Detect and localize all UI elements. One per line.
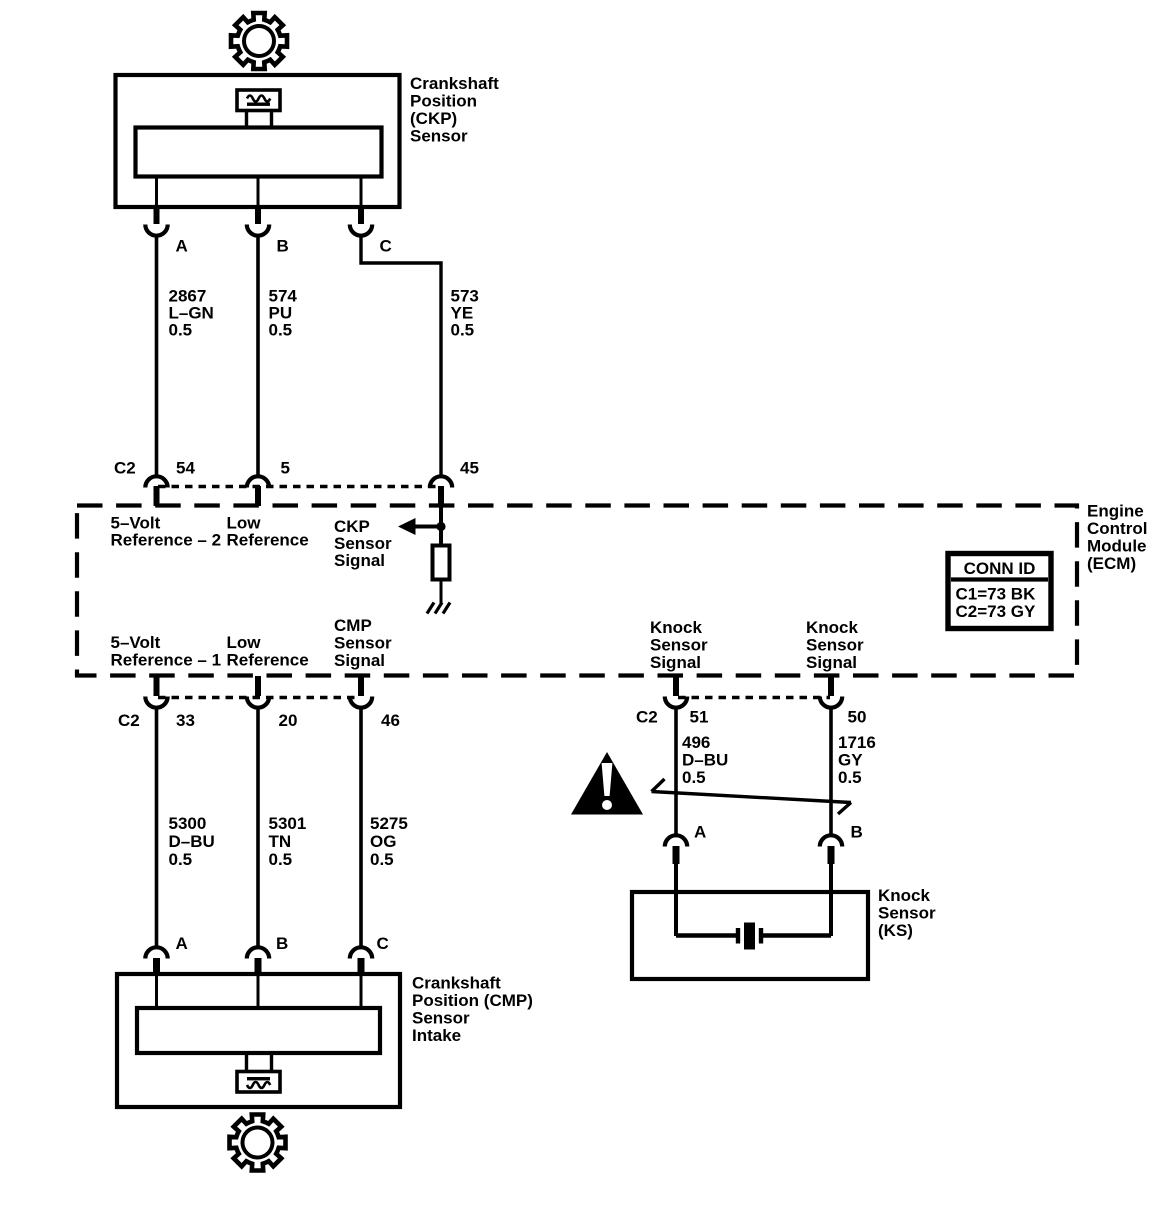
wire resistor to ground	[440, 580, 443, 605]
connector row C2 dashed line (top)	[158, 485, 440, 489]
CKP internal lead C	[360, 177, 363, 207]
wire label 574 PU 0.5	[269, 287, 298, 340]
svg-text:54: 54	[176, 459, 195, 478]
svg-text:B: B	[276, 934, 288, 953]
svg-text:Reference – 1: Reference – 1	[111, 651, 222, 670]
svg-text:C: C	[380, 237, 392, 256]
gear icon (reluctor wheel) above CKP sensor	[231, 13, 287, 69]
pin number 51	[690, 708, 709, 727]
CKP internal lead B	[257, 177, 260, 207]
svg-text:C: C	[377, 934, 389, 953]
svg-text:Signal: Signal	[806, 653, 857, 672]
svg-text:0.5: 0.5	[682, 768, 706, 787]
svg-text:Low: Low	[227, 633, 262, 652]
note pointer line across knock wires	[652, 779, 852, 814]
CKP terminal C	[350, 206, 372, 236]
connector row C2 dashed line (CMP)	[158, 696, 360, 700]
svg-text:C2: C2	[636, 708, 658, 727]
pin number 46	[381, 711, 400, 730]
svg-text:(CKP): (CKP)	[410, 109, 457, 128]
pin label A	[176, 237, 188, 256]
svg-text:Engine: Engine	[1087, 502, 1144, 521]
wire 5300 D-BU from ECM 33 to CMP A	[155, 709, 159, 948]
ECM pin 20 terminal	[247, 676, 269, 708]
svg-text:D–BU: D–BU	[682, 751, 728, 770]
CKP internal lead A	[155, 177, 158, 207]
pin number 45	[460, 459, 479, 478]
svg-text:20: 20	[279, 711, 298, 730]
wire 5301 TN from ECM 20 to CMP B	[256, 709, 260, 948]
CKP terminal A	[145, 206, 167, 236]
svg-text:Knock: Knock	[878, 886, 931, 905]
CKP sensor internal connector symbol	[237, 90, 280, 129]
wire label 1716 GY 0.5	[838, 733, 876, 787]
svg-text:Signal: Signal	[334, 651, 385, 670]
CMP sensor element box	[137, 1008, 380, 1053]
warning note triangle	[571, 752, 643, 815]
CMP internal lead B	[257, 976, 260, 1008]
label CKP Sensor Signal	[334, 517, 392, 570]
svg-text:A: A	[176, 934, 188, 953]
ECM pin 46 terminal	[350, 676, 372, 708]
CMP terminal C	[350, 947, 372, 976]
wire label 5300 D-BU 0.5	[169, 814, 215, 869]
ECM pin 54 terminal	[145, 476, 167, 506]
svg-text:Knock: Knock	[650, 618, 703, 637]
Engine Control Module (ECM) dashed box	[77, 506, 1077, 676]
svg-text:Knock: Knock	[806, 618, 859, 637]
label 5-Volt Reference - 1	[111, 633, 222, 670]
pin number 20	[279, 711, 298, 730]
CMP internal lead A	[155, 976, 158, 1008]
svg-text:TN: TN	[269, 832, 292, 851]
CKP sensor box	[116, 75, 400, 207]
ECM pin 51 terminal	[665, 676, 687, 708]
svg-text:51: 51	[690, 708, 709, 727]
ECM pin 5 terminal	[247, 476, 269, 506]
svg-text:5301: 5301	[269, 814, 307, 833]
svg-text:0.5: 0.5	[169, 321, 193, 340]
piezo element	[738, 923, 761, 950]
label CMP Sensor Signal	[334, 616, 392, 670]
CKP terminal B	[247, 206, 269, 236]
CMP pin label C	[377, 934, 389, 953]
svg-text:B: B	[851, 823, 863, 842]
CMP sensor box	[117, 974, 400, 1107]
pin number 33	[176, 711, 195, 730]
pin number 50	[848, 708, 867, 727]
KS lead B into box	[829, 864, 833, 936]
ground symbol	[427, 603, 450, 614]
svg-text:Sensor: Sensor	[806, 636, 864, 655]
ECM pin 45 terminal	[430, 476, 452, 506]
svg-text:Crankshaft: Crankshaft	[410, 74, 499, 93]
KS terminal B	[820, 835, 842, 864]
wire label 2867 L-GN 0.5	[169, 287, 214, 340]
svg-text:B: B	[277, 237, 289, 256]
CKP signal arrow	[398, 518, 441, 535]
CMP pin label A	[176, 934, 188, 953]
svg-text:Module: Module	[1087, 537, 1147, 556]
wire 1716 GY from ECM 50 to KS B	[829, 709, 833, 836]
KS internal wire right	[763, 933, 831, 937]
svg-text:50: 50	[848, 708, 867, 727]
wire 573 YE from CKP C to ECM 45	[361, 237, 441, 477]
CONN ID table	[948, 554, 1051, 629]
svg-text:Signal: Signal	[650, 653, 701, 672]
label Engine Control Module (ECM)	[1087, 502, 1147, 574]
svg-text:0.5: 0.5	[269, 321, 293, 340]
CMP internal connector symbol	[237, 1053, 280, 1092]
Knock Sensor (KS) box	[632, 892, 868, 979]
svg-text:(KS): (KS)	[878, 921, 913, 940]
pin number 5	[281, 459, 290, 478]
KS pin label A	[694, 823, 706, 842]
connector label C2 (top)	[114, 459, 136, 478]
svg-text:5275: 5275	[370, 814, 408, 833]
svg-text:C1=73 BK: C1=73 BK	[956, 585, 1037, 604]
CMP terminal B	[247, 947, 269, 976]
svg-text:Sensor: Sensor	[410, 126, 468, 145]
KS lead A into box	[674, 864, 678, 936]
CMP pin label B	[276, 934, 288, 953]
svg-text:0.5: 0.5	[269, 850, 293, 869]
svg-text:5–Volt: 5–Volt	[111, 633, 161, 652]
svg-text:5: 5	[281, 459, 290, 478]
label Knock Sensor Signal (left)	[650, 618, 708, 672]
svg-text:Intake: Intake	[412, 1026, 461, 1045]
svg-text:(ECM): (ECM)	[1087, 554, 1136, 573]
connector label C2 (knock)	[636, 708, 658, 727]
svg-text:Reference: Reference	[227, 651, 309, 670]
svg-text:D–BU: D–BU	[169, 832, 215, 851]
svg-text:A: A	[694, 823, 706, 842]
pin number 54	[176, 459, 195, 478]
pin label C	[380, 237, 392, 256]
svg-text:Crankshaft: Crankshaft	[412, 974, 501, 993]
svg-text:Position: Position	[410, 91, 477, 110]
wire 496 D-BU from ECM 51 to KS A	[674, 709, 678, 836]
label Knock Sensor (KS)	[878, 886, 936, 940]
connector label C2 (CMP)	[118, 711, 140, 730]
CONN ID header text	[964, 559, 1036, 578]
svg-text:0.5: 0.5	[451, 321, 475, 340]
label 5-Volt Reference - 2	[111, 514, 222, 550]
svg-text:33: 33	[176, 711, 195, 730]
CMP terminal A	[145, 947, 167, 976]
svg-text:496: 496	[682, 733, 710, 752]
svg-text:0.5: 0.5	[838, 768, 862, 787]
svg-text:Signal: Signal	[334, 551, 385, 570]
CKP sensor element box	[136, 128, 382, 177]
svg-text:0.5: 0.5	[169, 850, 193, 869]
label Crankshaft Position (CKP) Sensor	[410, 74, 499, 146]
svg-text:CONN ID: CONN ID	[964, 559, 1036, 578]
wire label 5275 OG 0.5	[370, 814, 408, 869]
label Knock Sensor Signal (right)	[806, 618, 864, 672]
svg-text:Control: Control	[1087, 519, 1147, 538]
wire 574 PU from CKP B to ECM 5	[256, 237, 260, 477]
svg-text:Sensor: Sensor	[650, 636, 708, 655]
label Low Reference (bottom)	[227, 633, 309, 670]
svg-text:C2=73 GY: C2=73 GY	[956, 602, 1037, 621]
label Crankshaft Position (CMP) Sensor Intake	[412, 974, 533, 1046]
svg-text:45: 45	[460, 459, 479, 478]
svg-text:Sensor: Sensor	[334, 634, 392, 653]
KS internal wire left	[676, 933, 736, 937]
wire 2867 L-GN from CKP A to ECM 54	[155, 237, 159, 477]
svg-text:CMP: CMP	[334, 616, 372, 635]
junction node on pin 45 line	[436, 522, 445, 531]
wire label 496 D-BU 0.5	[682, 733, 728, 787]
resistor (CKP signal pull-up)	[433, 546, 450, 580]
svg-text:GY: GY	[838, 751, 863, 770]
wire label 5301 TN 0.5	[269, 814, 307, 869]
CONN ID row C1=73 BK	[956, 585, 1037, 604]
gear icon (reluctor wheel) below CMP sensor	[230, 1115, 286, 1171]
wire pin45 to resistor	[439, 506, 443, 546]
svg-text:A: A	[176, 237, 188, 256]
svg-text:0.5: 0.5	[370, 850, 394, 869]
ECM pin 50 terminal	[820, 676, 842, 708]
svg-text:Sensor: Sensor	[412, 1009, 470, 1028]
CONN ID row C2=73 GY	[956, 602, 1037, 621]
wire label 573 YE 0.5	[451, 287, 479, 340]
svg-text:1716: 1716	[838, 733, 876, 752]
KS terminal A	[665, 835, 687, 864]
svg-text:C2: C2	[118, 711, 140, 730]
svg-text:Reference – 2: Reference – 2	[111, 531, 222, 550]
svg-text:Position (CMP): Position (CMP)	[412, 991, 533, 1010]
KS pin label B	[851, 823, 863, 842]
label Low Reference (top)	[227, 514, 309, 550]
svg-text:Reference: Reference	[227, 531, 309, 550]
ECM pin 33 terminal	[145, 676, 167, 708]
svg-text:OG: OG	[370, 832, 396, 851]
svg-text:5300: 5300	[169, 814, 207, 833]
pin label B	[277, 237, 289, 256]
svg-text:Sensor: Sensor	[878, 904, 936, 923]
connector row C2 dashed line (knock)	[678, 696, 830, 700]
svg-text:C2: C2	[114, 459, 136, 478]
svg-text:46: 46	[381, 711, 400, 730]
CMP internal lead C	[360, 976, 363, 1008]
wire 5275 OG from ECM 46 to CMP C	[359, 709, 363, 948]
